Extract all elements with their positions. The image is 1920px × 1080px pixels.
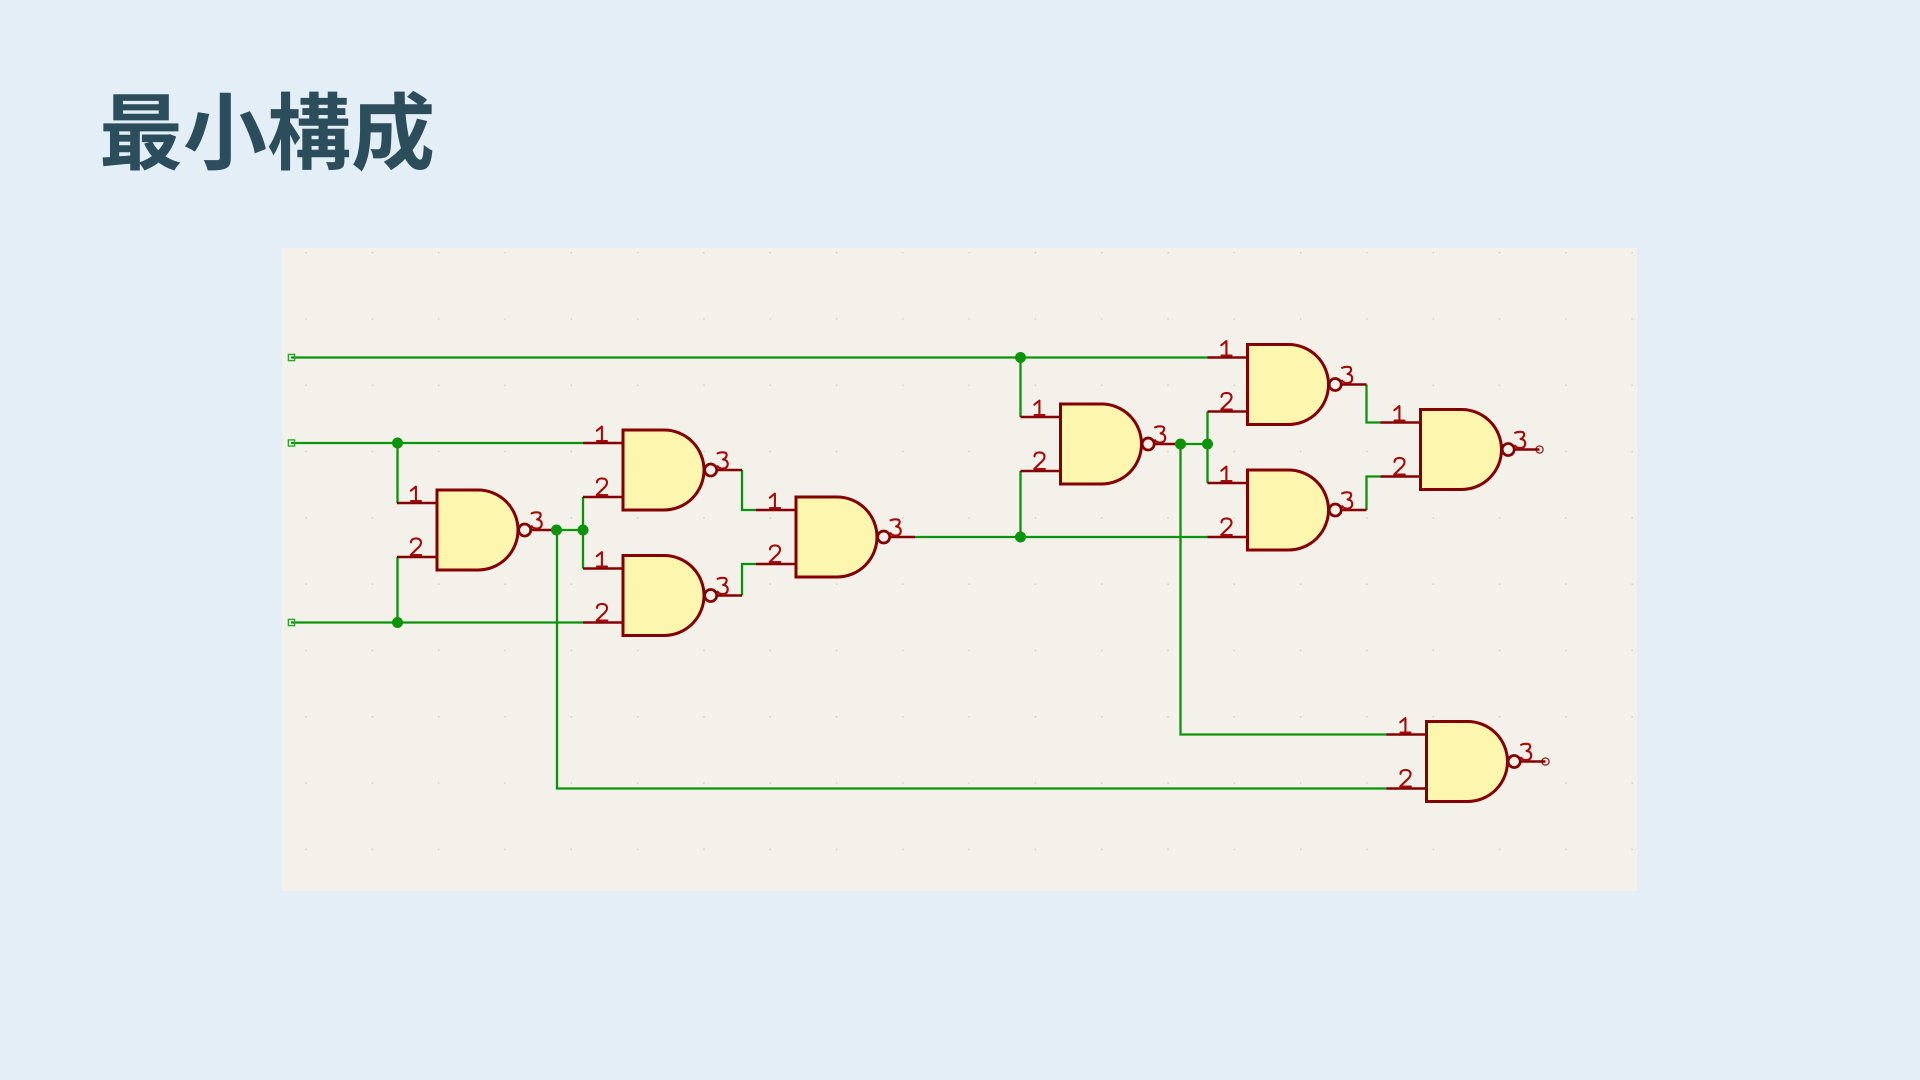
NAND gate U8 (7400, pins 1,2 in / 3 out) bbox=[1381, 406, 1540, 489]
unconnected pin marker at U8 output bbox=[1536, 446, 1543, 453]
wire: long drop from U5 output to U9 pin1 bbox=[1181, 444, 1387, 735]
junction: U4 output / U5 pin2 bbox=[1015, 532, 1026, 543]
junction: U1 output fanout b bbox=[578, 525, 589, 536]
wire: input C horizontal run to U3 pin2 bbox=[291, 621, 583, 623]
input terminal C (open wire end) bbox=[288, 619, 294, 625]
wire: vertical U6 pin2 to U7 pin1 bbox=[1206, 412, 1208, 484]
NAND gate U9 (7400, pins 1,2 in / 3 out) bbox=[1387, 718, 1546, 801]
unconnected pin marker at U9 output bbox=[1542, 758, 1549, 765]
input terminal A (open wire end) bbox=[288, 354, 294, 360]
wire: long run from U1 output to U9 pin2 bbox=[557, 530, 1387, 789]
junction: U5 output / drop to U9 bbox=[1175, 439, 1186, 450]
wire: U5 output run bbox=[1180, 443, 1208, 445]
schematic panel background bbox=[282, 248, 1637, 891]
title glyph 小 bbox=[185, 93, 266, 171]
NAND gate U2 (7400, pins 1,2 in / 3 out) bbox=[583, 427, 742, 510]
NAND gate U7 (7400, pins 1,2 in / 3 out) bbox=[1208, 467, 1367, 550]
junction: U5 output / U6-U7 branch bbox=[1202, 439, 1213, 450]
wire: input A branch down to U5 pin1 bbox=[1019, 358, 1021, 418]
junction: input B / U1 pin1 bbox=[392, 438, 403, 449]
NAND gate U4 (7400, pins 1,2 in / 3 out) bbox=[756, 494, 915, 577]
title glyph 最 bbox=[103, 94, 181, 170]
title glyph 構 bbox=[269, 92, 349, 171]
wire: U7 output up to U8 pin2 bbox=[1367, 477, 1381, 511]
schematic grid dots bbox=[282, 248, 1637, 891]
wire: U3 output up to U4 pin2 bbox=[742, 564, 756, 596]
NAND gate U3 (7400, pins 1,2 in / 3 out) bbox=[583, 552, 742, 635]
junction: U1 output fanout a bbox=[551, 525, 562, 536]
junction: input A / U5 pin1 bbox=[1015, 352, 1026, 363]
NAND gate U5 (7400, pins 1,2 in / 3 out) bbox=[1021, 401, 1180, 484]
wire: U6 output down to U8 pin1 bbox=[1367, 385, 1381, 423]
wire: input A horizontal run to U6 pin1 bbox=[291, 356, 1208, 358]
wire: U1 output to fanout corner bbox=[556, 529, 583, 531]
title glyph 成 bbox=[353, 91, 432, 172]
slide title 最小構成 bbox=[103, 91, 433, 172]
wire: U2 output down to U4 pin1 bbox=[742, 470, 756, 510]
wire: input B branch down to U1 pin1 bbox=[396, 443, 398, 503]
wire: branch up to U5 pin2 bbox=[1019, 471, 1021, 537]
NAND gate U1 (7400, pins 1,2 in / 3 out) bbox=[397, 487, 556, 570]
junction: input C / U1 pin2 bbox=[392, 617, 403, 628]
wire: input B horizontal run to U2 pin1 bbox=[291, 442, 583, 444]
wire: fanout vertical U2 pin2 to U3 pin1 bbox=[582, 497, 584, 569]
NAND gate U6 (7400, pins 1,2 in / 3 out) bbox=[1208, 341, 1367, 424]
wire: U1 pin2 drop to input C bbox=[396, 557, 398, 623]
input terminal B (open wire end) bbox=[288, 440, 294, 446]
wire: U4 output long run to U7 pin2 bbox=[915, 536, 1208, 538]
